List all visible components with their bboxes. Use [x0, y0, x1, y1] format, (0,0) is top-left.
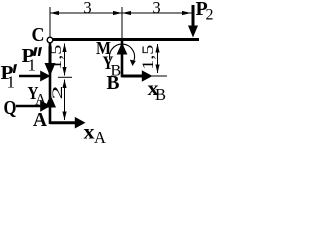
svg-text:2: 2: [50, 86, 66, 100]
dim arrow right: [182, 11, 191, 15]
axis xA arrow at A: [50, 121, 76, 124]
svg-text:A: A: [94, 128, 106, 147]
extension line above B column: [121, 7, 123, 38]
force Q horizontal: [16, 105, 42, 108]
beam C to right end: [50, 38, 199, 41]
reaction YB up along column: [117, 43, 128, 55]
svg-text:A: A: [33, 110, 47, 131]
svg-text:3: 3: [152, 0, 160, 17]
svg-text:2: 2: [206, 7, 214, 24]
axis xB arrow at B: [122, 75, 143, 78]
left column C to A: [49, 41, 52, 124]
left dim line 1,5: [64, 44, 66, 76]
svg-text:3: 3: [83, 0, 91, 17]
reaction YA up along column: [45, 95, 56, 108]
svg-text:Q: Q: [4, 98, 17, 119]
svg-text:1: 1: [28, 56, 37, 75]
witness tick at P1 level: [58, 76, 72, 78]
svg-text:1: 1: [7, 73, 16, 92]
dim arrows middle: [113, 11, 122, 15]
witness tick at B level: [152, 75, 167, 77]
column beam to B: [121, 41, 124, 77]
dim arrow left: [50, 11, 59, 15]
hinge circle at C: [47, 37, 53, 43]
force P2 down at right end: [192, 5, 195, 27]
force P1' horizontal: [19, 75, 42, 78]
svg-text:B: B: [155, 85, 166, 104]
moment M arc at B column top: [110, 44, 135, 61]
extension line above C: [49, 7, 51, 37]
svg-text:C: C: [32, 25, 45, 46]
svg-text:1,5: 1,5: [140, 45, 157, 70]
right dim line 1,5: [157, 44, 159, 73]
force P1'' down along column: [49, 46, 52, 65]
svg-text:B: B: [107, 73, 120, 94]
left dim line 2: [64, 80, 66, 121]
top dimension line: [50, 12, 192, 14]
